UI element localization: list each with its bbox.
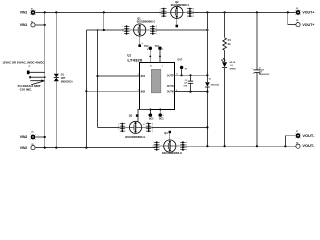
wire vertical IN1 riser bbox=[97, 30, 99, 127]
svg-text:1: 1 bbox=[162, 66, 163, 68]
svg-text:E9: E9 bbox=[185, 68, 187, 70]
wire vertical jack sleeve down bbox=[44, 72, 46, 147]
svg-text:E4: E4 bbox=[296, 19, 298, 22]
svg-text:U1: U1 bbox=[127, 54, 131, 58]
svg-text:SMBJ26CA: SMBJ26CA bbox=[61, 81, 73, 84]
terminal E1 VIN1 turret bbox=[20, 9, 36, 16]
svg-text:E7: E7 bbox=[296, 131, 298, 133]
svg-text:IN2: IN2 bbox=[141, 90, 146, 93]
transistor Q3 BSC028N06NS bbox=[118, 110, 153, 140]
svg-text:OUTN: OUTN bbox=[167, 91, 174, 94]
terminal E3 VOUT+ turret bbox=[296, 8, 315, 16]
pin TG1 top bbox=[155, 45, 164, 68]
terminal E2 VIN1 open turret bbox=[20, 21, 46, 27]
svg-text:8: 8 bbox=[147, 49, 148, 51]
LED D2 green bbox=[221, 58, 237, 146]
svg-text:11: 11 bbox=[176, 74, 178, 76]
terminal E6 VIN2 open turret bbox=[20, 144, 35, 150]
svg-text:D2: D2 bbox=[230, 65, 232, 67]
svg-text:VIN1: VIN1 bbox=[20, 23, 28, 27]
svg-text:VOUT+: VOUT+ bbox=[302, 11, 314, 15]
svg-text:VOUT+: VOUT+ bbox=[302, 23, 314, 27]
svg-text:BSC028N06NS G: BSC028N06NS G bbox=[171, 3, 190, 7]
svg-text:VIN1: VIN1 bbox=[20, 11, 28, 15]
terminal E9 OUT turret bbox=[178, 59, 188, 76]
terminal E4 VOUT+ open turret bbox=[288, 12, 315, 26]
wire vertical jack tip feed bbox=[44, 12, 46, 72]
wire Q3 row bbox=[98, 126, 120, 128]
IC U1 LT4320 body bbox=[127, 54, 174, 110]
wire IN1 pin bbox=[98, 75, 140, 77]
wire vertical VIN1 to Q1 row bbox=[103, 12, 105, 30]
transistor Q2 BSC028N06NS bbox=[160, 0, 195, 27]
capacitor C2 boost bbox=[184, 75, 194, 91]
svg-text:GREEN: GREEN bbox=[229, 68, 236, 70]
wire bottom-left rail VIN2 bbox=[35, 147, 155, 149]
wire Q1 row bbox=[86, 29, 124, 31]
svg-text:SMAJ24A: SMAJ24A bbox=[211, 83, 220, 86]
svg-text:OUTP: OUTP bbox=[167, 74, 174, 77]
svg-text:OUT: OUT bbox=[178, 59, 183, 62]
svg-text:4: 4 bbox=[142, 42, 143, 45]
svg-text:VOUT-: VOUT- bbox=[302, 134, 314, 138]
svg-text:3: 3 bbox=[162, 49, 163, 51]
svg-text:PANASONIC: PANASONIC bbox=[259, 73, 270, 76]
wire OUTN pin bbox=[175, 91, 208, 93]
terminal E7 VOUT- turret bbox=[285, 131, 314, 146]
resistor R1 bbox=[223, 12, 232, 62]
terminal E8 VOUT- open turret bbox=[296, 142, 315, 148]
svg-text:3: 3 bbox=[138, 74, 139, 76]
svg-text:CUI INC.: CUI INC. bbox=[20, 88, 33, 92]
svg-text:BG1: BG1 bbox=[159, 118, 164, 121]
pin BG1 bottom bbox=[158, 109, 164, 121]
diode D1 TVS branch bbox=[54, 12, 73, 147]
svg-text:OUTN: OUTN bbox=[167, 85, 174, 88]
wire top rail bbox=[35, 11, 295, 13]
connector J1 power jack bbox=[2, 60, 45, 91]
svg-text:D3: D3 bbox=[209, 79, 211, 81]
svg-text:LT4320: LT4320 bbox=[127, 59, 142, 63]
capacitor C1 bbox=[252, 12, 271, 146]
svg-text:12: 12 bbox=[150, 66, 152, 68]
svg-text:IN1: IN1 bbox=[141, 75, 146, 78]
pin TG2 top bbox=[144, 45, 152, 68]
terminal E5 VIN2 turret bbox=[20, 131, 46, 140]
diode D3 clamp bbox=[205, 79, 219, 87]
svg-text:Q3: Q3 bbox=[129, 114, 133, 118]
svg-text:4: 4 bbox=[143, 123, 144, 126]
svg-text:BSC028N06NS G: BSC028N06NS G bbox=[162, 151, 183, 155]
svg-text:VIN2: VIN2 bbox=[20, 135, 28, 139]
transistor Q4 BSC028N06NS bbox=[153, 131, 188, 155]
svg-text:2: 2 bbox=[138, 90, 139, 92]
svg-text:VIN2: VIN2 bbox=[20, 146, 28, 150]
svg-text:E5: E5 bbox=[31, 131, 33, 133]
pin BG2 bottom bbox=[147, 109, 154, 125]
wire VOUT riser x=207.4 with clamp bbox=[206, 12, 208, 82]
wire bottom-right rail VOUT- bbox=[184, 145, 296, 147]
wire IN2 pin bbox=[86, 90, 139, 92]
svg-text:BSC028N06NS G: BSC028N06NS G bbox=[137, 19, 156, 23]
node junctions top rail bbox=[44, 11, 289, 13]
svg-text:C2: C2 bbox=[185, 80, 187, 82]
wire vertical AC2 riser bbox=[85, 30, 87, 148]
svg-text:Q4: Q4 bbox=[164, 131, 168, 135]
svg-text:OPT: OPT bbox=[61, 77, 66, 80]
svg-text:J1: J1 bbox=[28, 66, 30, 68]
svg-text:+: + bbox=[252, 68, 253, 70]
svg-text:BSC028N06NS G: BSC028N06NS G bbox=[125, 135, 146, 139]
transistor Q1 BSC028N06NS bbox=[122, 16, 157, 47]
svg-text:BG2: BG2 bbox=[149, 118, 154, 121]
svg-text:8: 8 bbox=[176, 90, 177, 92]
svg-text:VOUT-: VOUT- bbox=[302, 144, 314, 148]
wire OUTP pin bbox=[175, 74, 208, 76]
svg-text:TG2: TG2 bbox=[144, 45, 149, 48]
svg-text:12VAC OR 24VAC, 9VDC-40VDC: 12VAC OR 24VAC, 9VDC-40VDC bbox=[2, 60, 45, 64]
svg-text:AB ON: AB ON bbox=[229, 61, 235, 64]
